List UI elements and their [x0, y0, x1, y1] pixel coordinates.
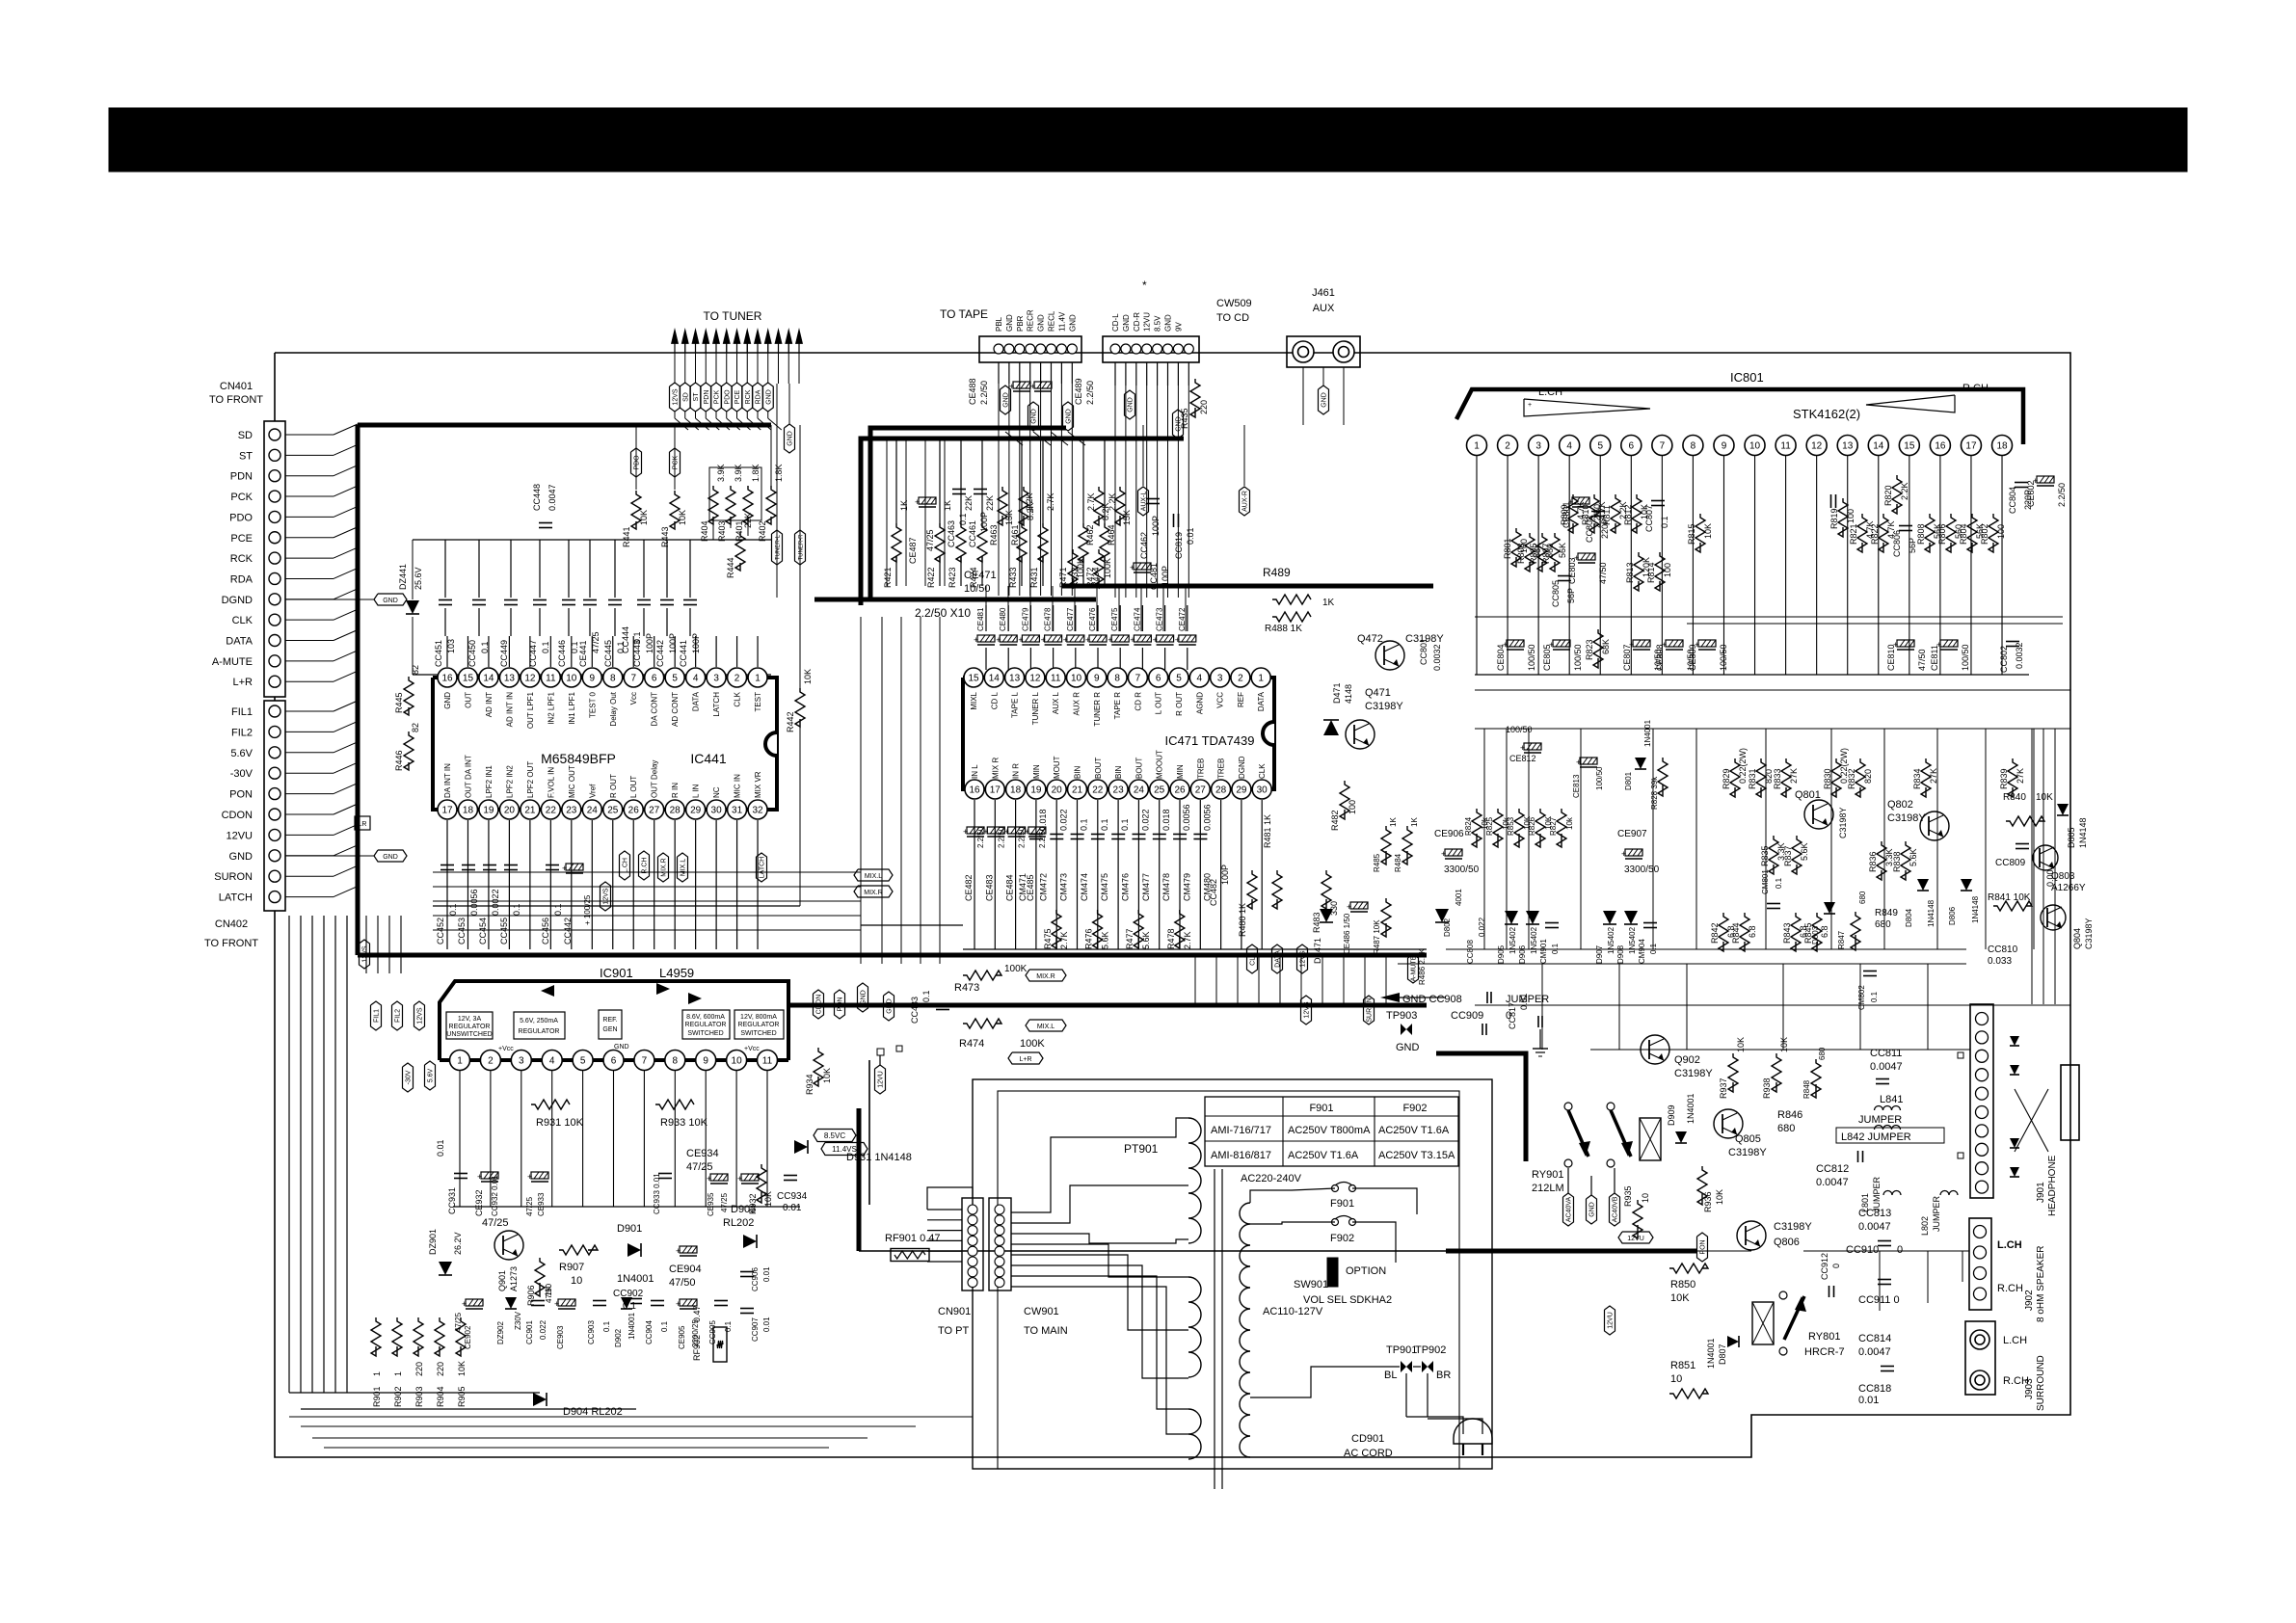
svg-text:R845: R845 [1803, 922, 1813, 944]
tag 12VU left [896, 1046, 902, 1051]
svg-text:47/50: 47/50 [1598, 562, 1608, 584]
svg-text:27: 27 [1195, 785, 1207, 796]
tags FIL1 FIL2 12VS [371, 1001, 382, 1030]
IC801 pin 17 [1961, 436, 1981, 456]
svg-text:CE933: CE933 [537, 1192, 546, 1216]
svg-text:6: 6 [611, 1056, 617, 1067]
svg-text:CE802: CE802 [2026, 480, 2036, 507]
svg-text:24: 24 [587, 806, 599, 816]
tuner arrow wire [764, 328, 772, 344]
svg-text:10K: 10K [1736, 1037, 1746, 1052]
svg-text:SWITCHED: SWITCHED [687, 1030, 723, 1037]
svg-text:D471: D471 [1332, 682, 1342, 704]
svg-text:CC813: CC813 [1858, 1208, 1891, 1219]
transformer core [1214, 1169, 1215, 1489]
svg-text:0.1: 0.1 [1100, 818, 1109, 831]
horizontal rails right [1475, 689, 2070, 691]
svg-text:6: 6 [1629, 441, 1635, 452]
svg-text:R828 39k: R828 39k [1650, 776, 1659, 810]
svg-text:12VS: 12VS [417, 1007, 424, 1024]
svg-text:1.8K: 1.8K [751, 464, 761, 482]
tuner arrow wire [681, 328, 689, 344]
cap CM47x [1173, 834, 1187, 836]
thick bus tape corner B [861, 439, 1184, 605]
IC471 pin 19 [1027, 780, 1046, 799]
svg-text:R442: R442 [786, 711, 795, 732]
svg-text:1: 1 [755, 674, 761, 684]
svg-text:CC455: CC455 [499, 918, 509, 945]
svg-text:21: 21 [1072, 785, 1083, 796]
svg-text:TO FRONT: TO FRONT [209, 394, 263, 406]
resistor R934 10K [814, 1048, 823, 1086]
IC441 pin 13 [499, 668, 519, 687]
tag PDN [701, 383, 711, 412]
svg-text:0.0022: 0.0022 [491, 889, 500, 916]
IC471 pin 9 [1087, 668, 1107, 687]
svg-text:25: 25 [1154, 785, 1165, 796]
svg-text:17: 17 [990, 785, 1001, 796]
svg-text:GND: GND [887, 998, 894, 1014]
IC801 pin 10 [1745, 436, 1765, 456]
svg-text:5: 5 [1176, 674, 1182, 684]
IC471 pin 21 [1068, 780, 1087, 799]
svg-text:+: + [1009, 382, 1014, 391]
IC471 pin 5 [1169, 668, 1188, 687]
svg-text:AD INT IN: AD INT IN [505, 692, 514, 728]
svg-text:8.6V, 600mA: 8.6V, 600mA [686, 1014, 725, 1021]
svg-text:R464: R464 [1107, 524, 1116, 545]
svg-text:CE482: CE482 [964, 874, 974, 901]
svg-text:F902: F902 [1402, 1103, 1427, 1114]
svg-text:R814: R814 [1646, 562, 1656, 583]
svg-text:CE905: CE905 [678, 1325, 686, 1349]
svg-text:MOOUT: MOOUT [1156, 750, 1164, 779]
svg-text:D908: D908 [1616, 945, 1625, 964]
svg-text:1: 1 [393, 1371, 403, 1376]
resistor R424 22K [977, 523, 987, 562]
svg-text:PCE: PCE [230, 533, 253, 545]
svg-text:GND: GND [1396, 1042, 1420, 1053]
svg-text:LATCH: LATCH [760, 857, 766, 878]
svg-text:AUX: AUX [1313, 303, 1335, 314]
svg-text:D901: D901 [617, 1223, 642, 1235]
svg-text:R903: R903 [414, 1386, 424, 1407]
svg-text:CE907: CE907 [1617, 829, 1647, 839]
jumper small squares [1958, 1052, 1963, 1058]
svg-text:Q902: Q902 [1674, 1054, 1700, 1066]
svg-text:R819: R819 [1829, 508, 1839, 529]
svg-text:3: 3 [713, 674, 719, 684]
resistor R401 1.8K [743, 486, 753, 524]
svg-text:CC463: CC463 [947, 520, 956, 547]
svg-text:CD901: CD901 [1351, 1433, 1384, 1445]
cap CC809 [2016, 843, 2029, 845]
svg-text:CLK: CLK [1250, 952, 1257, 966]
svg-text:+: + [477, 1172, 482, 1182]
resistor R933 10K [655, 1100, 694, 1109]
svg-text:30: 30 [1257, 785, 1268, 796]
svg-text:R937: R937 [1719, 1078, 1728, 1099]
cap CM47x [1071, 834, 1084, 836]
svg-text:+: + [676, 1299, 681, 1309]
resistor R421 1K [892, 523, 901, 562]
op-amp L.CH [1524, 399, 1650, 416]
svg-text:Z30V: Z30V [514, 1311, 522, 1330]
svg-text:R474: R474 [959, 1038, 984, 1050]
power block outer [973, 1079, 1492, 1469]
svg-text:CE475: CE475 [1110, 607, 1119, 631]
svg-text:L.CH: L.CH [2003, 1335, 2027, 1346]
resistor R833 27K [1781, 758, 1791, 797]
svg-text:0.1: 0.1 [1660, 516, 1669, 528]
svg-text:R834: R834 [1912, 768, 1922, 789]
tag 12VS left [360, 940, 370, 969]
connector CW509 TO CD [1103, 336, 1199, 362]
svg-text:GND: GND [1031, 409, 1038, 424]
ecap CE473 [1153, 635, 1174, 645]
svg-text:Vcc: Vcc [629, 692, 638, 705]
svg-text:CC818: CC818 [1858, 1383, 1891, 1395]
svg-text:D906: D906 [1518, 945, 1527, 964]
svg-text:CC907: CC907 [751, 1317, 760, 1342]
svg-text:CD L: CD L [990, 691, 999, 709]
svg-text:VCC: VCC [1216, 692, 1225, 708]
svg-text:PDO: PDO [229, 512, 253, 523]
IC471 pin 22 [1088, 780, 1108, 799]
svg-text:CC903: CC903 [587, 1320, 596, 1344]
svg-text:9: 9 [590, 674, 596, 684]
svg-text:L842 JUMPER: L842 JUMPER [1841, 1131, 1911, 1143]
IC441 pin 10 [562, 668, 581, 687]
resistor R828 39k [1658, 758, 1668, 796]
svg-text:R839: R839 [1999, 768, 2009, 789]
svg-text:2.2/50: 2.2/50 [979, 381, 989, 405]
fuse F902 [1332, 1219, 1339, 1226]
svg-text:CC442: CC442 [655, 640, 665, 667]
svg-text:+: + [1030, 382, 1035, 391]
svg-text:F901: F901 [1330, 1198, 1354, 1210]
switch arm RY801 [1784, 1296, 1804, 1340]
svg-text:R935: R935 [1623, 1185, 1633, 1207]
svg-text:AD CONT: AD CONT [671, 692, 680, 727]
svg-text:R832: R832 [1847, 768, 1856, 789]
svg-text:12V, 800mA: 12V, 800mA [740, 1014, 777, 1021]
svg-text:19: 19 [1030, 785, 1042, 796]
svg-text:220: 220 [436, 1362, 445, 1376]
svg-text:Q806: Q806 [1774, 1237, 1800, 1248]
svg-text:OPTION: OPTION [1346, 1265, 1386, 1277]
diode D806 1N4148 [1961, 879, 1972, 891]
IC801 pin 12 [1806, 436, 1827, 456]
resistor R423 22K [956, 523, 966, 562]
IC441 pin 4 [686, 668, 706, 687]
svg-text:CE471: CE471 [964, 570, 997, 581]
svg-text:0.1: 0.1 [958, 513, 968, 525]
svg-text:CE472: CE472 [1178, 607, 1187, 631]
svg-text:R802: R802 [1980, 523, 1989, 545]
svg-text:CN901: CN901 [938, 1306, 971, 1317]
svg-text:R938: R938 [1762, 1078, 1772, 1099]
IC471 pin 1 [1251, 668, 1270, 687]
svg-text:CE812: CE812 [1509, 754, 1536, 763]
svg-text:0.1: 0.1 [724, 1320, 733, 1332]
svg-text:1N4001: 1N4001 [1706, 1338, 1716, 1369]
resistor R435 [1190, 379, 1200, 417]
svg-text:8.2K: 8.2K [1101, 502, 1110, 520]
svg-text:F901: F901 [1309, 1103, 1333, 1114]
svg-text:R483: R483 [1312, 912, 1322, 933]
resistor R850 10K [1669, 1264, 1708, 1273]
svg-text:CE479: CE479 [1021, 607, 1029, 631]
svg-text:12VS: 12VS [1304, 1001, 1311, 1018]
cap CE803 47/50 [1574, 553, 1595, 563]
svg-text:+: + [1085, 635, 1090, 645]
connector J903 [1965, 1321, 1995, 1395]
svg-text:16: 16 [969, 785, 980, 796]
wires above IC441 [709, 467, 761, 520]
resistor R906 1K [535, 1258, 545, 1296]
svg-text:680: 680 [1875, 919, 1891, 930]
svg-text:5.6V: 5.6V [428, 1068, 435, 1082]
svg-text:CM904: CM904 [1638, 939, 1646, 964]
IC471 pin 12 [1026, 668, 1045, 687]
svg-text:D805: D805 [2067, 827, 2076, 848]
IC801 pin 1 [1467, 436, 1487, 456]
svg-text:100/50: 100/50 [1719, 644, 1728, 671]
svg-text:Delay Out: Delay Out [609, 691, 618, 726]
IC901 pin 6 [603, 1051, 624, 1071]
IC901 pin 5 [573, 1051, 593, 1071]
svg-text:23: 23 [566, 806, 577, 816]
transistor Q804 [2041, 905, 2066, 930]
svg-text:CC933 0.01: CC933 0.01 [653, 1173, 661, 1214]
resistor R837 5.6K [1792, 836, 1802, 874]
svg-text:BOUT: BOUT [1094, 758, 1103, 779]
svg-text:CC817: CC817 [1508, 1002, 1517, 1029]
svg-text:R.CH: R.CH [1997, 1283, 2023, 1294]
svg-text:0.0032: 0.0032 [1432, 644, 1442, 671]
svg-text:25: 25 [607, 806, 619, 816]
svg-text:8: 8 [1114, 674, 1120, 684]
svg-text:100K: 100K [1020, 1038, 1045, 1050]
transistor Q805 [1714, 1109, 1743, 1138]
svg-text:5.6K: 5.6K [1909, 848, 1918, 866]
svg-text:20: 20 [504, 806, 516, 816]
svg-text:18: 18 [463, 806, 474, 816]
connector CW901 [989, 1198, 1011, 1290]
svg-text:12VS: 12VS [673, 388, 680, 405]
svg-text:IC901: IC901 [600, 966, 633, 980]
svg-text:PDO: PDO [724, 389, 731, 405]
svg-text:0.033: 0.033 [1988, 956, 2012, 967]
svg-text:56P: 56P [1566, 588, 1576, 603]
IC441 pin 12 [521, 668, 540, 687]
svg-text:GND: GND [443, 692, 452, 709]
aux wires [1302, 367, 1304, 425]
svg-text:R813: R813 [1625, 562, 1635, 583]
svg-text:10: 10 [1670, 1373, 1682, 1385]
svg-text:L OUT: L OUT [629, 776, 638, 798]
diode D904 RL202 [533, 1393, 547, 1406]
svg-text:10K: 10K [1703, 523, 1713, 539]
svg-text:CD R: CD R [1134, 692, 1142, 711]
svg-text:3: 3 [519, 1056, 524, 1067]
relay RY801 [1752, 1302, 1774, 1344]
svg-text:BR: BR [1436, 1370, 1451, 1381]
svg-text:TP901: TP901 [1386, 1344, 1417, 1356]
svg-text:10: 10 [1071, 674, 1082, 684]
resistor R820 2.2K [1892, 475, 1902, 514]
svg-text:TUNER R: TUNER R [1093, 692, 1102, 727]
resistor R841 10K [1993, 901, 2032, 911]
svg-text:3: 3 [1217, 674, 1223, 684]
svg-text:4: 4 [1197, 674, 1203, 684]
mid vertical runs [860, 617, 862, 964]
svg-text:CW901: CW901 [1024, 1306, 1059, 1317]
transformer secondary coil [1240, 1203, 1250, 1457]
svg-text:22: 22 [546, 806, 557, 816]
svg-text:R404: R404 [700, 520, 709, 542]
mid column wires [886, 439, 888, 586]
svg-text:C3198Y: C3198Y [2084, 918, 2094, 949]
svg-text:CD-R: CD-R [1133, 312, 1141, 332]
tag 12VU right [1618, 1232, 1653, 1243]
thick bus right pair vertical [857, 1108, 862, 1251]
svg-text:*: * [1142, 279, 1147, 292]
svg-text:CC452: CC452 [436, 918, 445, 945]
ecap CE442 100/25 [562, 864, 583, 873]
resistor R806 560 [1946, 514, 1956, 552]
cap CC455 0.1 [504, 865, 518, 866]
bus bundle verticals [1194, 955, 1196, 1005]
IC471 pin 6 [1149, 668, 1168, 687]
svg-text:+: + [462, 1299, 467, 1309]
resistor R839 27K [2008, 758, 2017, 797]
svg-text:GND: GND [1066, 409, 1073, 424]
svg-text:Q804: Q804 [2072, 928, 2082, 949]
svg-text:PBL: PBL [995, 316, 1003, 332]
IC471 pin 10 [1067, 668, 1086, 687]
svg-text:8.5VC: 8.5VC [824, 1131, 845, 1140]
svg-text:BOUT: BOUT [1135, 758, 1143, 779]
svg-text:CM479: CM479 [1182, 873, 1191, 901]
svg-text:10K: 10K [1670, 1292, 1690, 1304]
svg-text:0.47: 0.47 [692, 1305, 702, 1322]
vertical drops right [1483, 729, 1485, 949]
connector CN901 [962, 1198, 983, 1290]
tags -30V 5.6V [403, 1063, 414, 1092]
svg-text:0.0047: 0.0047 [1858, 1221, 1891, 1233]
svg-text:MIX.L: MIX.L [1037, 1024, 1055, 1030]
svg-text:Vref: Vref [588, 784, 597, 798]
svg-text:5.6K: 5.6K [1141, 931, 1151, 949]
svg-text:GND: GND [1122, 314, 1131, 332]
IC471 pin 7 [1128, 668, 1147, 687]
svg-text:D907: D907 [1595, 945, 1604, 964]
svg-text:R443: R443 [660, 526, 670, 547]
svg-text:AC110-127V: AC110-127V [1263, 1306, 1323, 1317]
svg-text:AC220-240V: AC220-240V [1241, 1173, 1302, 1184]
headphone jack [2061, 1065, 2079, 1140]
svg-text:CC462: CC462 [1139, 532, 1149, 559]
svg-text:32: 32 [752, 806, 763, 816]
fuse table [1205, 1097, 1458, 1166]
svg-text:AUX-R: AUX-R [1242, 491, 1249, 512]
svg-text:CC932 0.01: CC932 0.01 [491, 1175, 499, 1216]
svg-text:100/50: 100/50 [1506, 725, 1533, 734]
transformer primary coil [1188, 1118, 1201, 1243]
tuner gnd wires [776, 384, 778, 598]
svg-text:47/25: 47/25 [686, 1161, 713, 1173]
svg-text:0.01: 0.01 [783, 1203, 802, 1213]
svg-text:47/25: 47/25 [925, 529, 935, 551]
IC471 pin 16 [965, 780, 984, 799]
svg-text:AMI-716/717: AMI-716/717 [1211, 1125, 1271, 1136]
svg-text:2: 2 [1238, 674, 1243, 684]
svg-text:100/50: 100/50 [1961, 644, 1970, 671]
svg-text:11: 11 [546, 674, 556, 684]
svg-text:R831: R831 [1748, 768, 1757, 789]
cap CC451 103 [439, 599, 452, 601]
cap CC456 0.1 [546, 865, 559, 866]
cap CM47x [1153, 834, 1166, 836]
IC801 pin 7 [1652, 436, 1672, 456]
ecap CE477 [1063, 635, 1084, 645]
IC471 pin 24 [1129, 780, 1148, 799]
IC441 pin 26 [624, 800, 643, 819]
IC441 pin 22 [541, 800, 560, 819]
IC471 pin 13 [1005, 668, 1025, 687]
svg-text:1: 1 [372, 1371, 382, 1376]
ecap CE486 1/50 [1347, 902, 1368, 912]
svg-text:CM475: CM475 [1100, 873, 1109, 901]
svg-text:10: 10 [566, 674, 577, 684]
svg-text:Q802: Q802 [1887, 799, 1913, 811]
svg-text:CC454: CC454 [478, 918, 488, 945]
svg-text:R473: R473 [954, 982, 979, 994]
IC441 pin 32 [748, 800, 767, 819]
svg-text:GND: GND [1589, 1202, 1596, 1217]
svg-text:RDA: RDA [756, 389, 762, 404]
transistor Q902 [1641, 1035, 1669, 1064]
ecap tape A [1009, 382, 1030, 391]
svg-text:12VU: 12VU [1627, 1236, 1644, 1242]
svg-text:JUMPER: JUMPER [1932, 1195, 1941, 1232]
svg-text:GND CC908: GND CC908 [1402, 994, 1462, 1005]
svg-text:12V, 3A: 12V, 3A [458, 1016, 482, 1023]
svg-text:10K: 10K [1779, 1037, 1789, 1052]
svg-text:CE813: CE813 [1572, 774, 1581, 798]
resistor R801 100 [1511, 528, 1521, 567]
svg-text:L4959: L4959 [659, 966, 694, 980]
svg-text:CC812: CC812 [1816, 1163, 1849, 1175]
svg-text:5: 5 [1597, 441, 1603, 452]
svg-text:REGULATOR: REGULATOR [738, 1022, 780, 1028]
svg-text:22K: 22K [985, 495, 995, 511]
svg-text:47/25: 47/25 [482, 1217, 509, 1229]
resistor R853 10K [1514, 809, 1524, 847]
svg-text:RY801: RY801 [1808, 1331, 1840, 1343]
svg-text:+: + [1004, 827, 1009, 837]
svg-text:5.6V: 5.6V [230, 748, 253, 759]
svg-text:R809: R809 [1560, 504, 1569, 525]
svg-text:47/50: 47/50 [669, 1277, 696, 1289]
svg-text:TO FRONT: TO FRONT [204, 938, 258, 949]
IC441 pin 5 [665, 668, 684, 687]
svg-text:PON: PON [1700, 1239, 1707, 1254]
tag 12VU power [1605, 1306, 1615, 1335]
resistor R907 10 [559, 1245, 598, 1255]
